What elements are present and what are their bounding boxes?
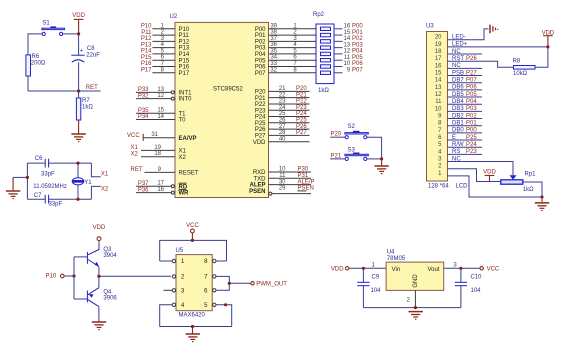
svg-text:P07: P07 [466,78,477,84]
svg-text:P10: P10 [179,27,190,33]
svg-text:P06: P06 [352,61,363,67]
op IC U4 78M05 body [386,250,444,291]
wire U5 bottom rail [160,326,232,328]
wire S2 to ground rail [367,137,382,159]
wire to X2 stub [91,186,100,199]
svg-text:P05: P05 [255,58,266,64]
port P10 [46,274,65,280]
chassis ground for LED- (rotated) [490,25,498,34]
svg-text:20: 20 [435,35,442,41]
svg-text:C7: C7 [34,193,42,199]
svg-text:17: 17 [435,56,442,62]
svg-text:DB2: DB2 [452,113,464,119]
svg-text:PSB: PSB [452,70,464,76]
node junction RET rail / R7 [77,89,80,92]
wire to X1 stub [91,163,100,177]
svg-text:PWM_OUT: PWM_OUT [256,282,287,288]
svg-text:E: E [452,135,456,141]
svg-text:U5: U5 [176,248,184,254]
svg-text:16: 16 [435,63,442,69]
svg-text:P23: P23 [466,149,477,155]
svg-text:14: 14 [435,78,442,84]
svg-text:15: 15 [344,30,351,36]
pin P12 (pin 3) of U2 with net label P12 [141,36,190,46]
pin P02 (pin 37) of U2 wire to Rp2 [255,36,316,46]
crystal Y1 [72,163,92,199]
wire Rp2 pin 11 to net label P05 [334,55,363,61]
svg-text:X1: X1 [179,149,187,155]
svg-text:VCC: VCC [127,133,140,139]
wire VDD port to U4 Vin [349,267,386,269]
pin X1 (pin 19) of U2 with net label X1 [131,145,187,155]
pin P27 (pin 28) of U2 with net label P27 [255,130,310,139]
port VCC (U4 output) [480,266,500,272]
svg-text:P07: P07 [255,71,266,77]
wire PWM node to port [229,282,251,284]
svg-text:VCC: VCC [186,223,199,229]
power VDD (push-pull) [93,225,106,240]
wire Rp2 pin 16 to net label P00 [334,24,363,30]
svg-text:13: 13 [435,85,442,91]
svg-text:P01: P01 [352,30,363,36]
node junction crystal bottom [76,198,79,201]
svg-text:11: 11 [435,99,442,105]
svg-text:Rp2: Rp2 [313,12,325,18]
svg-text:P01: P01 [466,121,477,127]
pin 6 of U3 (E net P25) [438,135,482,141]
svg-text:RXD: RXD [253,170,266,176]
svg-text:P20: P20 [255,90,266,96]
svg-text:P04: P04 [466,99,477,105]
ground below U4 [409,312,423,320]
capacitor C7 [34,193,63,208]
svg-text:22uF: 22uF [86,53,100,59]
wire ground stub [13,176,27,178]
pin 18 of U3 (NC) [435,49,482,55]
svg-text:1kΩ: 1kΩ [82,104,93,110]
svg-text:P14: P14 [179,52,190,58]
node junction U5 ground [191,325,194,328]
capacitor C8 (electrolytic) [71,46,100,62]
ground below R7 [71,134,85,142]
pin RD of U2 with net label P37 [136,181,188,191]
port PWM_OUT [251,282,287,288]
pin P01 (pin 38) of U2 wire to Rp2 [255,30,316,40]
svg-text:P26: P26 [466,56,477,62]
pin P10 (pin 1) of U2 with net label P10 [141,23,190,33]
wire U5 pin4 to bottom rail [160,305,173,327]
wire P20 stub to S2 [330,136,345,138]
svg-text:MAX6420: MAX6420 [179,313,206,319]
node junction PWM [228,282,231,285]
pin 13 of U3 (DB6 net P06) [435,85,482,91]
svg-text:DB1: DB1 [452,121,464,127]
wire Rp2 pin 9 to net label P07 [334,67,363,73]
transistor Q3 NPN 3904 [87,247,117,267]
svg-text:P10: P10 [141,24,152,30]
svg-text:128 *64: 128 *64 [428,184,449,190]
pin 14 of U3 (DB7 net P07) [435,78,482,84]
svg-text:R6: R6 [32,54,40,60]
svg-text:DB6: DB6 [452,85,464,91]
wire Q3 emitter to output node [98,267,100,277]
svg-text:VDD: VDD [93,225,106,231]
svg-text:LED+: LED+ [452,42,468,48]
wire C8 bottom to rail [78,62,80,91]
svg-text:Vout: Vout [427,267,439,273]
pin X2 (pin 18) of U2 with net label X2 [131,151,187,161]
pin 2 of U4 to ground [407,290,416,307]
svg-text:DB0: DB0 [452,128,464,134]
svg-text:18: 18 [435,49,442,55]
node junction VDD/S1/C8 [77,32,80,35]
svg-text:104: 104 [471,288,482,294]
pin P15 (pin 6) of U2 with net label P15 [141,55,190,65]
svg-text:10: 10 [435,106,442,112]
svg-text:DB3: DB3 [452,106,464,112]
pin P21 (pin 22) of U2 with net label P21 [255,92,310,101]
pin 2 of U3 [438,164,501,182]
pin 5 of U3 (R/W net P24) [438,142,482,148]
node junction Rp1 ground [540,195,543,198]
switch S3 [331,147,369,160]
pin VDD (pin 40) of U2 [253,136,310,145]
wire stub to Q3 base [74,256,87,258]
pin P25 (pin 26) of U2 with net label P25 [255,118,310,127]
svg-text:P25: P25 [255,121,266,127]
svg-text:P21: P21 [255,96,266,102]
wire U4 bottom rail [363,307,461,309]
node junction C9 top [362,267,365,270]
pin 3 of U5 [172,289,185,295]
svg-text:X2: X2 [131,151,139,157]
svg-text:RST: RST [452,56,464,62]
svg-text:P00: P00 [255,27,266,33]
op IC U2 STC89C52 body [170,14,269,198]
pin WR of U2 with net label P36 [136,187,189,197]
pin 3 of U4 wire to VCC [444,263,480,269]
pin 9 of U3 (DB2 net P02) [438,113,482,119]
node junction U4 ground [414,306,417,309]
svg-text:X2: X2 [101,186,109,192]
port VDD (U4 input) [331,266,349,272]
pin RXD (pin 10) of U2 with net label P30 [253,167,311,176]
svg-text:29: 29 [279,186,286,192]
svg-text:14: 14 [344,36,351,42]
wire U5 pin8 to rail [216,260,227,262]
svg-text:TXD: TXD [254,176,267,182]
pin 7 of U5 [204,275,216,281]
wire bottom X2 net [27,198,45,200]
svg-text:+: + [80,48,84,54]
svg-text:T1: T1 [179,111,187,117]
capacitor C9 [357,268,381,307]
svg-text:P05: P05 [466,92,477,98]
svg-text:X1: X1 [101,171,109,177]
svg-text:P24: P24 [466,142,477,148]
pin 2 of U5 [172,275,185,281]
pin P07 (pin 32) of U2 wire to Rp2 [255,67,316,77]
svg-text:P03: P03 [255,46,266,52]
pin PSEN (pin 29) of U2 with net label PSEN [249,186,314,196]
svg-text:DB5: DB5 [452,92,464,98]
wire U5 pin5 to bottom rail [216,305,232,327]
pin 16 of U3 (NC) [435,63,482,69]
svg-text:INT1: INT1 [179,91,193,97]
pin 17 of U3 (RST net P26) [435,56,514,67]
pin RESET (pin 9) of U2 with net label RET [131,167,199,177]
power VCC (above U5) [186,223,199,233]
svg-text:P17: P17 [141,67,152,73]
pin 6 of U5 [204,289,216,295]
svg-text:C8: C8 [87,46,95,52]
svg-text:1kΩ: 1kΩ [523,187,534,193]
potentiometer Rp1 [501,171,536,193]
svg-text:P16: P16 [179,65,190,71]
svg-text:P13: P13 [141,42,152,48]
svg-text:3904: 3904 [103,253,117,259]
capacitor C10 [455,268,482,307]
node junction left rail [26,176,29,179]
wire ground stem U5 [192,327,194,335]
svg-text:P01: P01 [255,33,266,39]
svg-text:U3: U3 [426,24,434,30]
svg-text:P06: P06 [255,65,266,71]
wire left rail of crystal [26,163,28,199]
svg-text:S2: S2 [348,124,356,130]
pin 11 of U3 (DB4 net P04) [435,99,482,105]
node junction VCC rail [191,239,194,242]
node junction output [97,275,100,278]
svg-text:12: 12 [344,49,351,55]
svg-text:P07: P07 [352,67,363,73]
pin T1 of U2 with net label P35 [136,108,186,118]
svg-text:P27: P27 [466,70,477,76]
wire Q4 emitter to output node [98,276,100,288]
wire Rp2 pin 13 to net label P03 [334,42,363,48]
wire Q4 collector to ground [98,307,100,322]
pin 20 of U3 (LED-) [435,29,489,41]
pin 4 of U5 [172,303,185,309]
svg-text:1kΩ: 1kΩ [318,88,329,94]
op IC U5 MAX6420 body [176,248,213,311]
svg-text:Vin: Vin [392,267,401,273]
transistor Q4 PNP 3906 [87,288,117,307]
svg-text:VCC: VCC [487,266,500,272]
svg-text:X1: X1 [131,145,139,151]
wire top X1 net [27,162,45,164]
svg-text:P25: P25 [466,135,477,141]
wire Rp2 pin 15 to net label P01 [334,30,363,36]
svg-text:P13: P13 [179,46,190,52]
pin P14 (pin 5) of U2 with net label P14 [141,48,190,58]
pin P03 (pin 36) of U2 wire to Rp2 [255,42,316,52]
wire Rp1 to ground rail [523,182,542,197]
svg-text:P04: P04 [255,52,266,58]
svg-text:WR: WR [179,191,190,197]
svg-text:T0: T0 [179,118,187,124]
svg-text:P16: P16 [141,61,152,67]
pin 5 of U5 [204,303,216,309]
capacitor C6 [35,156,55,178]
pin P26 (pin 27) of U2 with net label P26 [255,124,310,133]
svg-text:X2: X2 [179,155,187,161]
label 128*64 LCD [428,184,468,190]
svg-text:C6: C6 [35,156,43,162]
svg-text:RET: RET [131,167,143,173]
wire stub to Q4 base [74,298,87,300]
svg-text:P12: P12 [179,39,190,45]
wire Rp2 pin 10 to net label P06 [334,61,363,67]
node junction LED+/VDD [546,45,549,48]
pin 3 of U3 (NC) [438,156,513,175]
node junction C10 top [459,267,462,270]
svg-text:VDD: VDD [542,30,555,36]
wire U5 pin6 to PWM node [216,283,229,290]
svg-text:P24: P24 [255,115,266,121]
svg-text:P27: P27 [255,133,266,139]
svg-text:13: 13 [344,42,351,48]
resistor pack Rp2 [313,12,334,94]
pin P00 (pin 39) of U2 wire to Rp2 [255,23,316,33]
wire S1 left to R6 [28,34,42,55]
svg-text:LED-: LED- [452,35,466,41]
pin TXD (pin 11) of U2 with net label P31 [254,173,312,182]
pin P04 (pin 35) of U2 wire to Rp2 [255,48,316,58]
svg-text:NC: NC [452,49,461,55]
svg-text:3906: 3906 [103,296,117,302]
svg-text:11: 11 [344,55,351,61]
pin P13 (pin 4) of U2 with net label P13 [141,42,190,52]
connector U3 LCD 128*64 body [426,24,448,181]
svg-text:R/W: R/W [452,142,464,148]
ground below Q4 [92,322,106,330]
svg-text:VDD: VDD [253,140,266,146]
wire U5 pin3 stub [164,289,173,291]
wire VDD to Q3 collector [98,241,100,250]
svg-text:P11: P11 [141,30,152,36]
svg-text:33pF: 33pF [41,172,55,178]
svg-text:RESET: RESET [179,171,199,177]
svg-text:P15: P15 [179,58,190,64]
wire base rail vertical [73,257,75,299]
svg-text:EA/VP: EA/VP [179,136,197,142]
svg-text:P02: P02 [255,39,266,45]
svg-text:LCD: LCD [456,184,469,190]
svg-text:31: 31 [151,132,158,138]
svg-text:R7: R7 [82,98,90,104]
svg-text:NC: NC [452,156,461,162]
pin P20 (pin 21) of U2 with net label P20 [255,86,310,95]
pin 15 of U3 (PSB net P27) [435,70,482,76]
svg-text:78M05: 78M05 [387,256,406,262]
svg-text:P14: P14 [141,49,152,55]
svg-text:VDD: VDD [331,266,344,272]
svg-text:200Ω: 200Ω [31,60,46,66]
wire rail to R7 top [78,91,80,98]
pin P05 (pin 34) of U2 wire to Rp2 [255,55,316,65]
svg-text:P12: P12 [141,36,152,42]
svg-text:P06: P06 [466,85,477,91]
pin ALEP (pin 30) of U2 with net label ALE/P [249,179,314,188]
svg-text:P05: P05 [352,55,363,61]
svg-text:VDD: VDD [72,13,85,19]
svg-text:P15: P15 [141,55,152,61]
wire VCC top rail to pins 1 and 8 [160,240,227,261]
svg-text:19: 19 [435,42,442,48]
svg-text:P23: P23 [255,108,266,114]
wire Rp2 pin 12 to net label P04 [334,49,363,55]
svg-text:DB4: DB4 [452,99,464,105]
switch S2 [331,124,369,139]
svg-text:P00: P00 [352,24,363,30]
wire R6 bottom to RET rail [27,76,29,91]
svg-text:11.0592MHz: 11.0592MHz [33,184,67,190]
svg-text:PSEN: PSEN [249,189,265,195]
svg-text:P00: P00 [466,128,477,134]
svg-text:RS: RS [452,149,460,155]
svg-text:R8: R8 [513,58,521,64]
pin P24 (pin 25) of U2 with net label P24 [255,111,310,120]
pin P22 (pin 23) of U2 with net label P22 [255,99,310,108]
svg-text:P10: P10 [46,274,57,280]
svg-text:P03: P03 [466,106,477,112]
wire VCC stem [191,233,193,241]
pin P16 (pin 7) of U2 with net label P16 [141,61,190,71]
node junction base rail [72,274,75,277]
node junction S2/S3 ground [380,157,383,160]
pin 10 of U3 (DB3 net P03) [435,106,482,112]
svg-text:33pF: 33pF [49,202,63,208]
resistor R8 [513,58,536,77]
wire RET rail [28,90,101,92]
pin P17 (pin 8) of U2 with net label P17 [141,67,190,77]
pin 4 of U3 (RS net P23) [438,149,482,155]
pin EA/VP (pin 31) of U2 with power VCC [127,132,197,142]
wire output node to U5 pin 2 [99,275,171,277]
power VDD (LCD backlight) [543,36,553,47]
wire R7 bottom to ground [78,120,80,134]
svg-text:10kΩ: 10kΩ [513,71,528,77]
wire U5 pin7 to PWM node [216,276,229,283]
ground below S2/S3 [381,159,383,166]
svg-text:15: 15 [435,71,442,77]
svg-text:P26: P26 [255,127,266,133]
pin 8 of U3 (DB1 net P01) [438,121,482,127]
resistor R7 [76,98,93,120]
pin INT0 of U2 with net label P32 [136,93,192,103]
pin T0 of U2 with net label P34 [136,114,186,124]
svg-text:Y1: Y1 [84,180,92,186]
svg-text:10: 10 [344,61,351,67]
node junction crystal top [76,162,79,165]
power VDD (LCD contrast) [485,176,495,182]
wire P10 to base rail [64,275,74,277]
svg-text:9: 9 [347,67,351,73]
svg-text:U2: U2 [170,14,178,20]
svg-text:12: 12 [435,92,442,98]
svg-text:U4: U4 [387,250,395,256]
power VDD (top-left) [74,19,84,34]
wire S3 to ground [367,158,382,160]
svg-text:P22: P22 [255,102,266,108]
pin 1 of U3 [438,171,542,197]
pin P11 (pin 2) of U2 with net label P11 [141,30,189,40]
pin 12 of U3 (DB5 net P05) [435,92,482,98]
pin INT1 of U2 with net label P33 [136,87,192,97]
svg-text:P11: P11 [179,33,190,39]
svg-text:2: 2 [407,297,411,303]
